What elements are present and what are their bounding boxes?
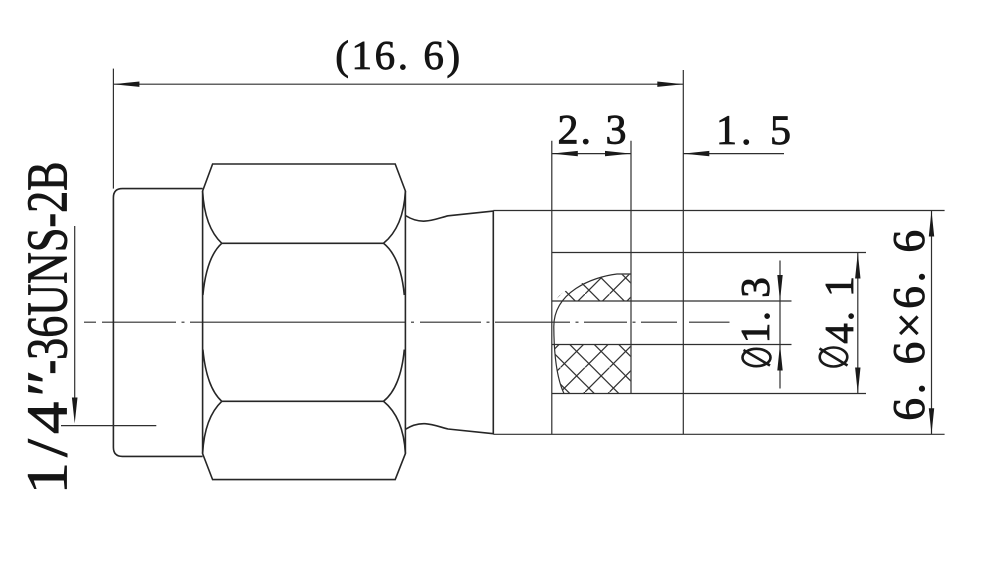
dimension 6.6x6.6: upper arrow bbox=[929, 211, 934, 237]
svg-text:6. 6×6. 6: 6. 6×6. 6 bbox=[883, 226, 934, 421]
dimension 2.3: right arrow bbox=[605, 151, 631, 156]
thread callout leader arrow bbox=[72, 398, 78, 424]
threaded sleeve (left barrel) bbox=[113, 189, 202, 457]
svg-text:(16. 6): (16. 6) bbox=[335, 32, 463, 78]
dimension 16.6: left arrow bbox=[113, 82, 139, 87]
dimension 2.3: dimension line bbox=[552, 153, 631, 155]
dielectric left face line / 2.3 extension bbox=[551, 141, 553, 435]
dimension 1.5: dimension line bbox=[683, 153, 784, 155]
dimension 16.6: dimension line bbox=[113, 83, 683, 85]
dimension 6.6x6.6: dimension line bbox=[931, 211, 933, 435]
hex middle face arc right-lower bbox=[384, 350, 405, 402]
thread callout leader vertical line bbox=[74, 226, 76, 412]
hex chamfer arc top-right bbox=[384, 191, 406, 243]
hex nut outline bbox=[203, 164, 406, 480]
svg-text:1. 3: 1. 3 bbox=[732, 276, 778, 344]
dimension 1.5: arrow bbox=[683, 151, 709, 156]
pin top edge (dia 1.3) + extension bbox=[552, 300, 792, 302]
svg-text:1. 5: 1. 5 bbox=[716, 108, 795, 154]
dimension 16.6: right arrow bbox=[657, 82, 683, 87]
hex facet line upper bbox=[222, 242, 384, 244]
neck groove top profile bbox=[405, 211, 493, 221]
dimension dia4.1: dimension line bbox=[857, 253, 859, 394]
svg-text:-36UNS-2B: -36UNS-2B bbox=[15, 161, 80, 374]
body bottom edge + 6.6 extension line bbox=[493, 433, 944, 435]
dimension 6.6x6.6: lower arrow bbox=[929, 408, 934, 434]
bore top edge (dia 4.1) + extension bbox=[552, 252, 866, 254]
hex facet line lower bbox=[222, 400, 384, 402]
dielectric right face line / 2.3 extension bbox=[630, 141, 632, 394]
svg-text:4. 1: 4. 1 bbox=[816, 274, 862, 344]
dielectric hatched section upper bbox=[556, 275, 631, 301]
body right face / 16.6 + 1.5 extension line bbox=[682, 70, 684, 434]
hex middle face arc left-upper bbox=[203, 243, 222, 295]
thread callout leader horizontal line bbox=[61, 425, 156, 427]
dimension dia4.1: lower arrow bbox=[855, 368, 860, 394]
dimension dia4.1: upper arrow bbox=[855, 253, 860, 279]
svg-text:2. 3: 2. 3 bbox=[558, 108, 629, 154]
neck groove bottom profile bbox=[405, 424, 493, 434]
dielectric insulator nose arc bbox=[554, 274, 631, 394]
dimension dia1.3: lower arrow bbox=[777, 345, 782, 371]
svg-text:1/4″: 1/4″ bbox=[15, 365, 80, 495]
dimension dia1.3: dimension line bbox=[779, 261, 781, 389]
dielectric hatched section lower bbox=[555, 345, 631, 393]
pin bottom edge (dia 1.3) + extension bbox=[552, 344, 792, 346]
dimension 16.6: left extension line bbox=[112, 69, 114, 189]
dimension dia1.3: diameter symbol bbox=[743, 349, 771, 366]
dimension 2.3: left arrow bbox=[552, 151, 578, 156]
body top edge + 6.6 extension line bbox=[493, 210, 944, 212]
hex middle face arc right-upper bbox=[384, 243, 405, 295]
dimension dia1.3: upper arrow bbox=[777, 275, 782, 301]
hex chamfer arc top-left bbox=[203, 191, 222, 243]
hex chamfer arc bottom-left bbox=[203, 401, 222, 453]
hex middle face arc left-lower bbox=[203, 350, 222, 402]
square body (6.6 x 6.6 flange) left edge bbox=[492, 211, 494, 435]
dimension dia4.1: diameter symbol bbox=[820, 348, 848, 367]
hex chamfer arc bottom-right bbox=[384, 401, 406, 453]
bore bottom edge (dia 4.1) + extension bbox=[552, 393, 866, 395]
centerline (axis) bbox=[84, 321, 730, 323]
